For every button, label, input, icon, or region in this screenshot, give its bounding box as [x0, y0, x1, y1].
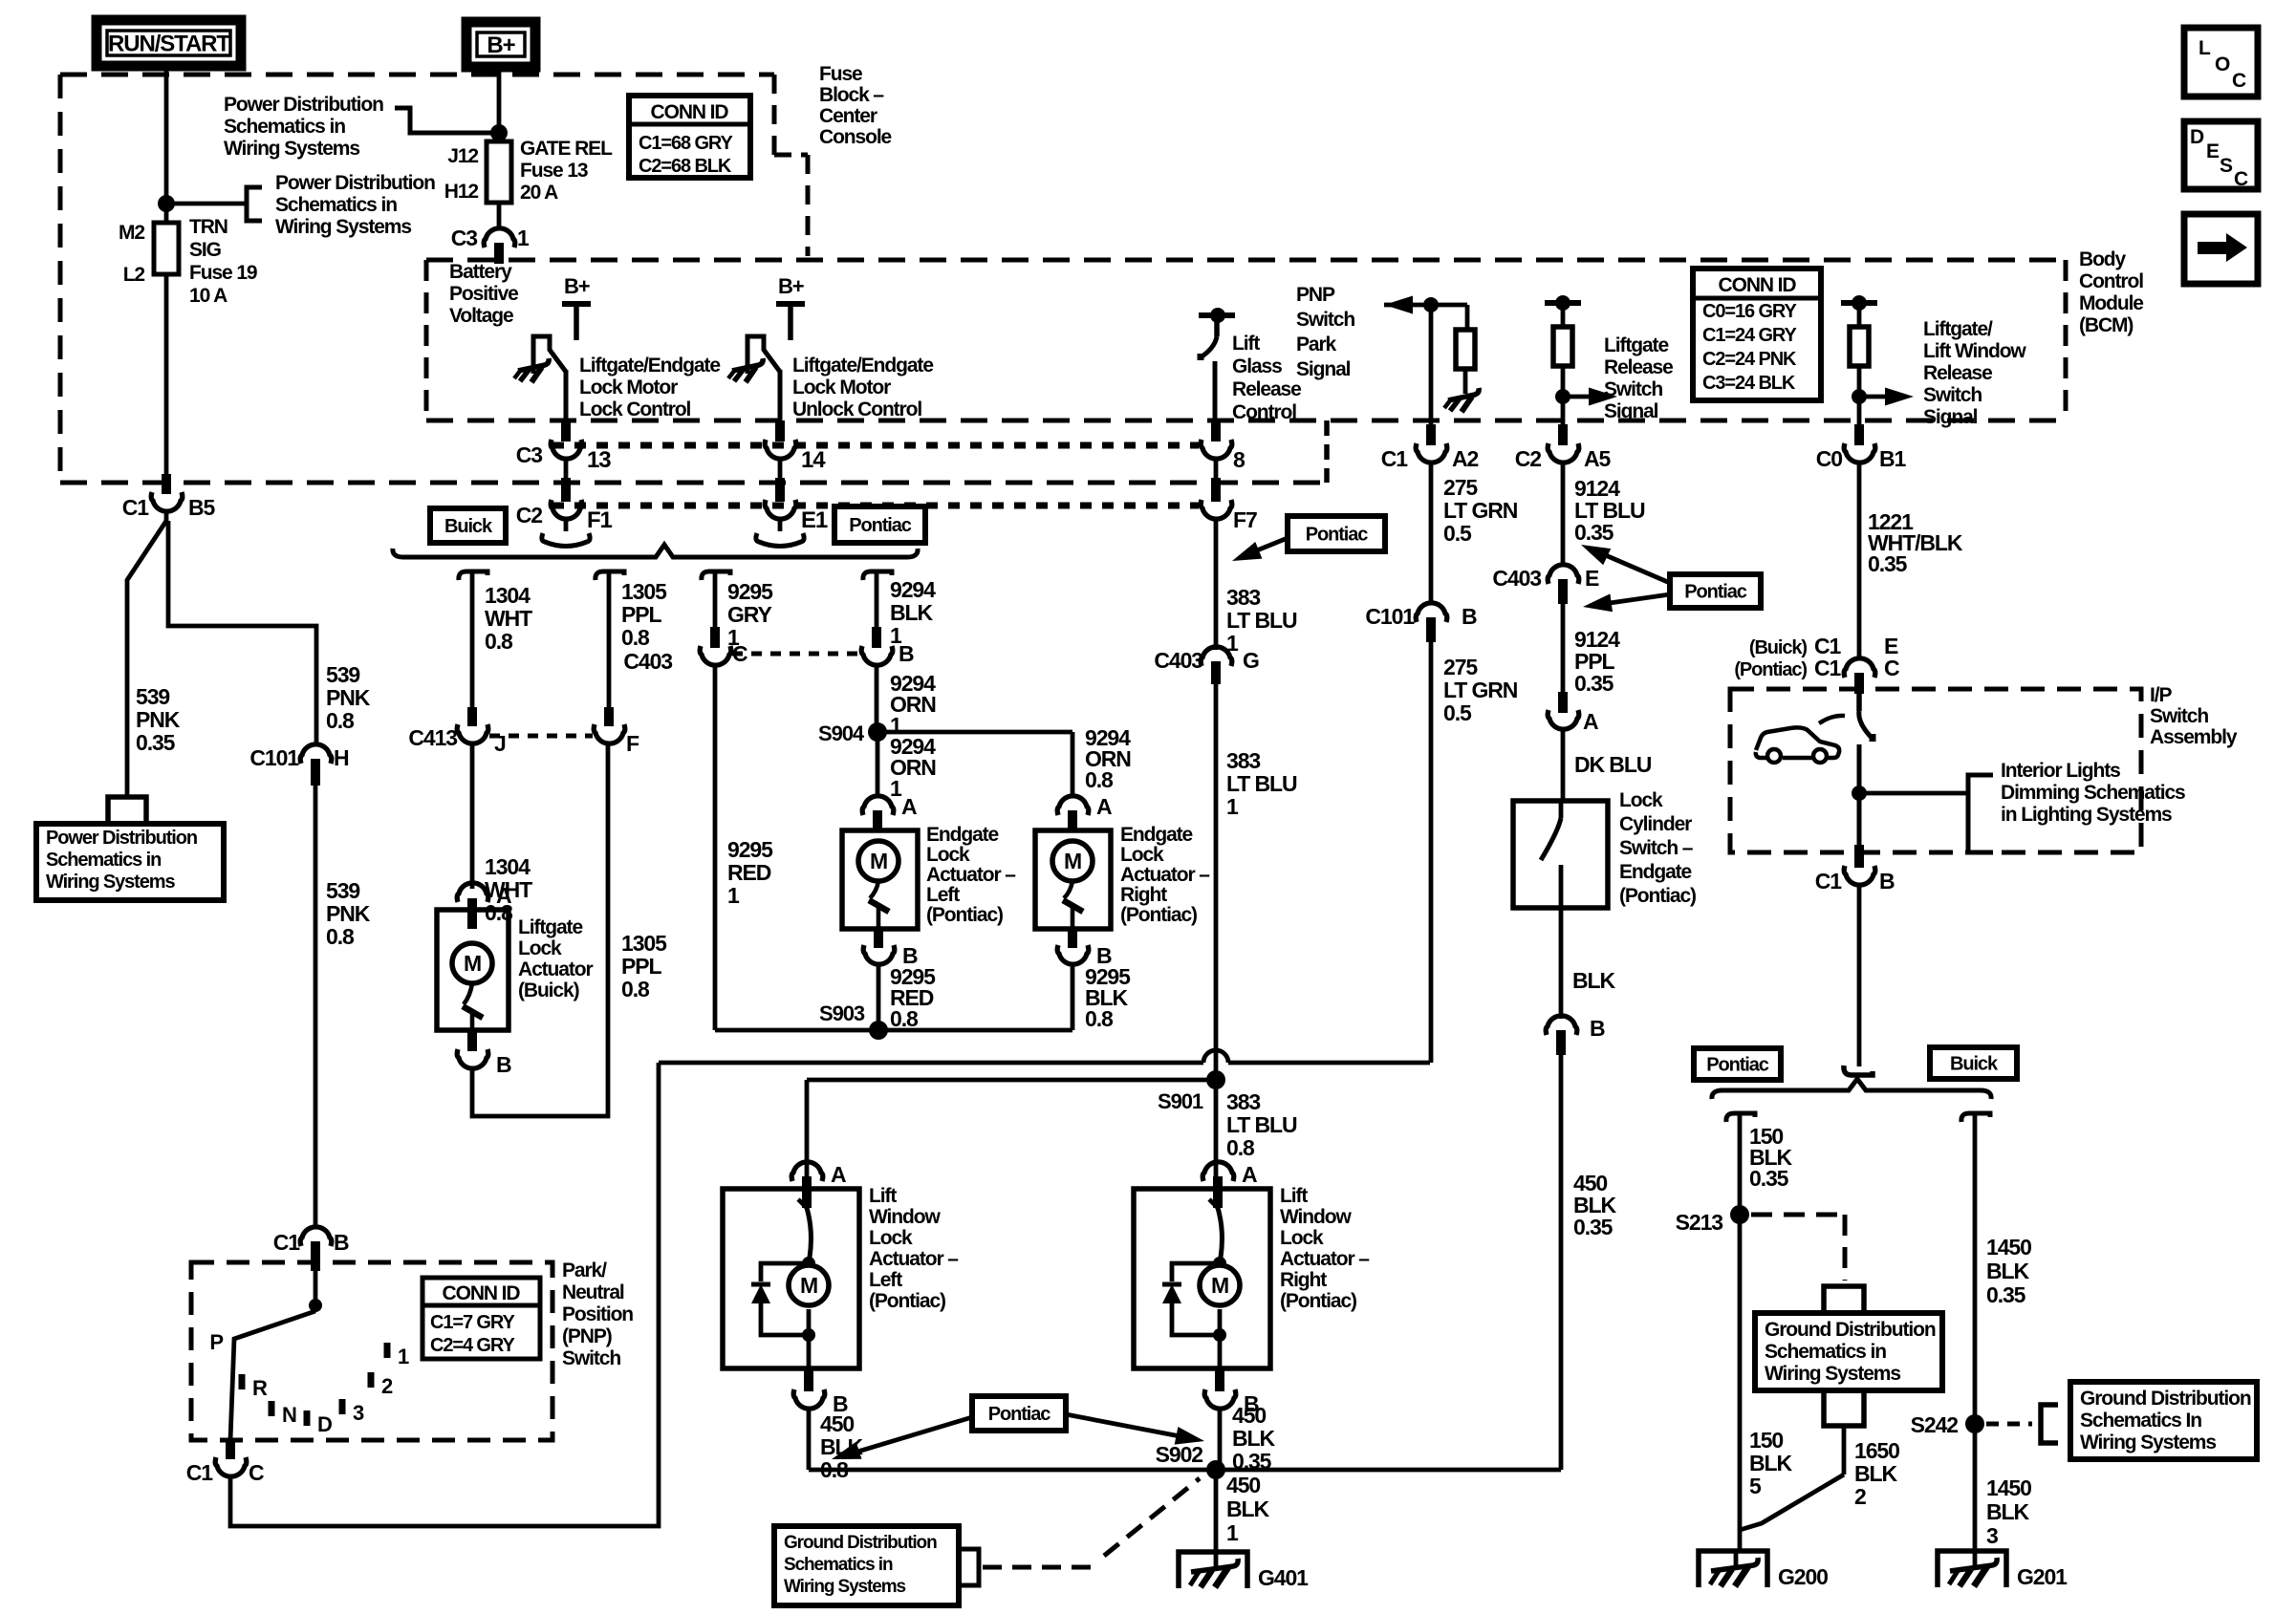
svg-text:Pontiac: Pontiac	[1684, 582, 1747, 603]
svg-text:0.35: 0.35	[1574, 520, 1614, 545]
svg-text:C0=16 GRY: C0=16 GRY	[1702, 301, 1798, 322]
svg-text:P: P	[209, 1330, 223, 1354]
CONN ID box (fuse block)	[629, 96, 750, 178]
svg-text:B: B	[1879, 869, 1895, 894]
fuse block pins C3-14 / C2-E1	[775, 420, 785, 441]
wire fuse to C3 1	[497, 203, 502, 229]
svg-text:BLK: BLK	[1226, 1497, 1269, 1521]
svg-text:Endgate: Endgate	[1619, 861, 1692, 883]
svg-text:Lift Window: Lift Window	[1923, 340, 2026, 362]
svg-text:BLK: BLK	[1854, 1461, 1897, 1486]
svg-text:Pontiac: Pontiac	[1306, 525, 1369, 546]
svg-text:(BCM): (BCM)	[2079, 314, 2133, 336]
svg-text:M: M	[1211, 1273, 1228, 1298]
svg-text:LT BLU: LT BLU	[1226, 1112, 1297, 1137]
svg-text:PNK: PNK	[326, 901, 371, 926]
lock cylinder switch box	[1513, 801, 1608, 908]
svg-text:Lock: Lock	[1619, 789, 1663, 811]
svg-text:(Pontiac): (Pontiac)	[1120, 904, 1197, 926]
svg-text:Liftgate/: Liftgate/	[1923, 318, 1993, 340]
svg-text:C1: C1	[1381, 446, 1409, 471]
wire 539 PNK 0.8 to PNP switch	[314, 784, 318, 1228]
svg-text:Interior Lights: Interior Lights	[2001, 760, 2120, 782]
svg-text:B: B	[334, 1230, 349, 1255]
svg-text:383: 383	[1226, 585, 1260, 610]
svg-text:WHT: WHT	[485, 606, 532, 631]
svg-text:BLK: BLK	[1572, 968, 1615, 993]
Pontiac harness box label	[834, 506, 925, 543]
svg-text:3: 3	[353, 1401, 364, 1425]
svg-text:Release: Release	[1923, 362, 1992, 384]
svg-text:B+: B+	[564, 274, 590, 298]
svg-text:Lock: Lock	[926, 844, 970, 866]
svg-text:539: 539	[326, 662, 359, 687]
svg-text:0.8: 0.8	[326, 708, 355, 733]
svg-text:Release: Release	[1232, 378, 1301, 400]
svg-text:C101: C101	[1365, 604, 1415, 629]
svg-text:1: 1	[517, 226, 530, 250]
svg-text:0.35: 0.35	[1749, 1166, 1789, 1191]
svg-text:Signal: Signal	[1604, 400, 1658, 422]
svg-text:S242: S242	[1911, 1412, 1959, 1437]
svg-text:C: C	[2234, 168, 2248, 190]
svg-text:DK BLU: DK BLU	[1574, 752, 1652, 777]
connector B left endgate actuator	[874, 929, 883, 948]
connector A right endgate actuator	[1057, 796, 1089, 815]
svg-text:Control: Control	[2079, 270, 2143, 292]
svg-text:10 A: 10 A	[189, 285, 227, 307]
connector C403 B	[872, 627, 881, 648]
svg-text:0.35: 0.35	[1573, 1215, 1614, 1239]
svg-text:C2: C2	[1515, 446, 1542, 471]
svg-text:Wiring Systems: Wiring Systems	[784, 1577, 906, 1597]
connector C1 B below I/P switch	[1854, 845, 1864, 868]
svg-text:C1: C1	[186, 1460, 214, 1485]
wire 275 LT GRN from C1 A2	[1426, 424, 1436, 445]
svg-text:9295: 9295	[727, 579, 773, 604]
svg-text:Schematics in: Schematics in	[1765, 1341, 1886, 1363]
svg-text:A: A	[1096, 794, 1112, 819]
svg-text:Dimming Schematics: Dimming Schematics	[2001, 782, 2185, 804]
svg-text:Block –: Block –	[819, 84, 884, 106]
svg-text:C1=24 GRY: C1=24 GRY	[1702, 325, 1798, 346]
svg-text:Lift: Lift	[1232, 333, 1260, 355]
arrow reference box	[2184, 214, 2258, 284]
interior dashed box left edge	[424, 260, 429, 420]
fuse block - center console dashed outline	[60, 73, 774, 77]
svg-text:Body: Body	[2079, 248, 2127, 270]
svg-text:Schematics In: Schematics In	[2080, 1410, 2201, 1432]
svg-text:C403: C403	[623, 649, 672, 674]
fuse block pins C3-13 / C2-F1	[561, 420, 571, 441]
svg-text:Switch: Switch	[1604, 378, 1662, 400]
svg-text:Wiring Systems: Wiring Systems	[46, 872, 175, 893]
Buick box (ground split)	[1930, 1047, 2017, 1079]
svg-text:450: 450	[1232, 1403, 1266, 1428]
svg-text:M: M	[800, 1273, 817, 1298]
svg-text:0.8: 0.8	[621, 625, 650, 650]
svg-text:Signal: Signal	[1296, 358, 1351, 380]
svg-text:E: E	[2206, 140, 2220, 162]
svg-text:H12: H12	[444, 181, 479, 203]
svg-text:C2=24 PNK: C2=24 PNK	[1702, 349, 1797, 370]
svg-text:5: 5	[1749, 1474, 1762, 1498]
connector row C2 dotted line	[552, 503, 1199, 509]
connector B below Buick actuator	[467, 1030, 477, 1051]
svg-text:Fuse 13: Fuse 13	[520, 160, 588, 182]
Buick harness box label	[430, 508, 506, 543]
LOC reference box	[2184, 28, 2258, 97]
svg-text:Console: Console	[819, 126, 892, 148]
svg-text:BLK: BLK	[1986, 1499, 2029, 1524]
PNP return line with wire hop	[659, 1050, 1430, 1063]
CONN ID box (PNP)	[422, 1278, 540, 1359]
wire 383 LT BLU 0.8 S901 to right actuator	[1214, 1080, 1219, 1179]
C403 dotted link	[732, 652, 858, 657]
svg-text:0.8: 0.8	[1085, 767, 1114, 792]
svg-text:GRY: GRY	[727, 602, 771, 627]
svg-text:RED: RED	[727, 860, 771, 885]
ground G201	[1938, 1551, 2006, 1587]
ground distribution box (center-right)	[1755, 1313, 1942, 1390]
DESC reference box	[2184, 121, 2258, 189]
svg-text:Buick: Buick	[1950, 1054, 1999, 1075]
endgate lock actuator left box	[842, 830, 918, 929]
svg-text:B1: B1	[1879, 446, 1907, 471]
svg-text:Module: Module	[2079, 292, 2143, 314]
svg-text:S903: S903	[819, 1001, 865, 1025]
svg-text:Wiring Systems: Wiring Systems	[224, 138, 359, 160]
svg-text:Liftgate/Endgate: Liftgate/Endgate	[579, 355, 720, 377]
junction S903	[869, 1021, 888, 1040]
svg-text:PNP: PNP	[1296, 284, 1335, 306]
svg-text:S213: S213	[1676, 1210, 1723, 1235]
svg-text:0.35: 0.35	[1868, 551, 1908, 576]
svg-text:C: C	[1884, 656, 1899, 680]
svg-text:N: N	[282, 1403, 296, 1427]
svg-text:Lock: Lock	[869, 1227, 913, 1249]
PNP switch dashed box	[191, 1262, 552, 1440]
svg-text:1305: 1305	[621, 579, 667, 604]
power distribution bracket (lower-left)	[247, 187, 262, 221]
fuse block C1 connector step bracket	[1324, 420, 1330, 483]
wire 150 BLK 0.35 (Pontiac)	[1726, 1113, 1755, 1122]
svg-text:C101: C101	[249, 745, 299, 770]
svg-text:1: 1	[727, 883, 740, 908]
svg-text:B: B	[496, 1052, 511, 1077]
svg-text:C3=24 BLK: C3=24 BLK	[1702, 373, 1796, 394]
svg-text:PNK: PNK	[136, 707, 181, 732]
wire 9294 ORN 0.8 to right endgate actuator	[1071, 732, 1075, 797]
I/P switch blade	[1856, 692, 1862, 711]
harness brace	[393, 545, 918, 557]
svg-text:S901: S901	[1158, 1089, 1203, 1113]
svg-text:CONN ID: CONN ID	[651, 101, 729, 123]
connector C413 F	[604, 707, 614, 726]
svg-text:(Pontiac): (Pontiac)	[1619, 885, 1696, 907]
svg-text:C1: C1	[273, 1230, 301, 1255]
Pontiac box with two arrows (bottom)	[972, 1396, 1066, 1431]
wire RUN/START ignition feed	[164, 66, 169, 223]
svg-text:C3: C3	[451, 226, 478, 250]
svg-text:Window: Window	[869, 1206, 941, 1228]
liftgate/lift window release switch signal resistor	[1841, 300, 1877, 306]
svg-text:Schematics in: Schematics in	[275, 194, 397, 216]
svg-text:G401: G401	[1258, 1565, 1309, 1590]
svg-text:0.8: 0.8	[890, 1006, 919, 1031]
svg-text:A: A	[496, 883, 511, 908]
power flag RUN/START	[97, 20, 241, 66]
wire fuse to C1 B5	[164, 274, 169, 479]
svg-text:20 A: 20 A	[520, 182, 558, 204]
connector C3 1 (fuse block output)	[484, 228, 515, 248]
svg-text:1: 1	[1226, 794, 1239, 819]
ground G401	[1179, 1552, 1247, 1588]
svg-text:B5: B5	[188, 495, 216, 520]
svg-text:Buick: Buick	[444, 516, 493, 537]
svg-text:O: O	[2215, 54, 2230, 75]
wire down to Pontiac/Buick brace	[1857, 884, 1862, 1066]
svg-text:Unlock Control: Unlock Control	[792, 398, 921, 420]
dashed leader S213 to ground distribution box	[1751, 1213, 1845, 1217]
connector A lift window actuator left	[791, 1162, 823, 1181]
svg-text:Actuator –: Actuator –	[869, 1248, 959, 1270]
leader S242 to ground distribution box	[1986, 1422, 2032, 1427]
svg-text:F1: F1	[587, 507, 613, 533]
svg-text:C: C	[2232, 70, 2246, 92]
svg-text:Window: Window	[1280, 1206, 1352, 1228]
wire 383 LT BLU to S901	[1214, 682, 1219, 1080]
connector B lift window actuator right	[1215, 1368, 1224, 1391]
connector C1 B at PNP switch	[300, 1227, 332, 1246]
svg-text:Battery: Battery	[449, 261, 512, 283]
svg-text:Park: Park	[1296, 334, 1337, 355]
junction S904	[868, 722, 887, 742]
svg-text:14: 14	[801, 447, 826, 473]
svg-text:TRN: TRN	[189, 216, 227, 238]
svg-text:B+: B+	[778, 274, 804, 298]
svg-text:Lift: Lift	[1280, 1185, 1308, 1207]
svg-text:Right: Right	[1280, 1269, 1327, 1291]
svg-text:Lift: Lift	[869, 1185, 897, 1207]
svg-text:BLK: BLK	[1986, 1259, 2029, 1283]
svg-text:Actuator: Actuator	[518, 958, 593, 980]
wire 150 BLK 5 to G200	[1738, 1215, 1743, 1551]
wire 1304 WHT 0.8 (Buick)	[459, 571, 487, 580]
fuse block connector-face bottom dashed line	[60, 481, 1327, 485]
svg-text:Actuator –: Actuator –	[1120, 864, 1210, 886]
svg-text:S: S	[2220, 155, 2233, 177]
svg-text:0.35: 0.35	[136, 730, 176, 755]
wire B+ feed	[497, 67, 502, 141]
svg-text:Wiring Systems: Wiring Systems	[2080, 1432, 2216, 1453]
power flag B+ (fuse block feed)	[466, 22, 535, 67]
wire to left endgate actuator A	[876, 732, 880, 797]
svg-text:Switch: Switch	[562, 1347, 620, 1369]
svg-text:0.35: 0.35	[1574, 671, 1614, 696]
S902 junction line	[809, 1468, 1561, 1473]
svg-text:0.8: 0.8	[1085, 1006, 1114, 1031]
bracket below ground distribution box	[1824, 1391, 1864, 1426]
svg-text:BLK: BLK	[1232, 1426, 1275, 1451]
connector C101 B	[1416, 603, 1447, 622]
svg-text:Right: Right	[1120, 884, 1167, 906]
svg-text:275: 275	[1443, 475, 1478, 500]
wire 450 BLK 1 to G401	[1214, 1470, 1219, 1552]
svg-text:Ground Distribution: Ground Distribution	[1765, 1319, 1936, 1341]
wire S901 to left actuator	[805, 1080, 810, 1179]
svg-text:C403: C403	[1492, 566, 1541, 591]
svg-text:Fuse 19: Fuse 19	[189, 262, 257, 284]
svg-text:Center: Center	[819, 105, 877, 127]
Pontiac box (ground split)	[1694, 1048, 1781, 1080]
car icon	[1756, 727, 1839, 758]
interior dashed box bottom edge	[426, 419, 2066, 423]
connector C1 B5	[151, 492, 183, 511]
PNP switch wire and wiper	[314, 1269, 318, 1305]
connector B lock cylinder	[1546, 1016, 1577, 1035]
svg-text:C2=4 GRY: C2=4 GRY	[430, 1335, 515, 1356]
svg-text:Endgate: Endgate	[1120, 824, 1193, 846]
svg-text:RUN/START: RUN/START	[108, 32, 230, 57]
svg-text:Release: Release	[1604, 356, 1673, 378]
dashed leader to S902	[983, 1565, 1097, 1570]
ground distribution box (bottom-center)	[774, 1526, 959, 1605]
svg-text:150: 150	[1749, 1428, 1783, 1453]
wire branch to power distribution (539 PNK 0.35)	[127, 521, 166, 796]
fuse M2/L2 TRN SIG Fuse 19 10A	[154, 223, 179, 274]
svg-text:BLK: BLK	[1749, 1451, 1792, 1475]
wire 9124 from C2 A5	[1558, 424, 1568, 445]
connector C403 E	[1548, 565, 1579, 584]
svg-text:Switch: Switch	[1296, 309, 1354, 331]
wire BLK below lock cylinder switch	[1559, 908, 1564, 1019]
S903 bottom link wire	[715, 1028, 1072, 1033]
svg-text:C1: C1	[122, 495, 150, 520]
svg-text:A2: A2	[1452, 446, 1479, 471]
endgate lock actuator right box	[1035, 830, 1111, 929]
svg-text:Liftgate/Endgate: Liftgate/Endgate	[792, 355, 933, 377]
svg-text:C1: C1	[1815, 869, 1843, 894]
svg-text:1304: 1304	[485, 583, 531, 608]
svg-text:PPL: PPL	[621, 602, 661, 627]
svg-text:1450: 1450	[1986, 1475, 2031, 1500]
svg-text:L: L	[2199, 37, 2211, 59]
junction S213	[1730, 1205, 1749, 1224]
svg-text:Signal: Signal	[1923, 406, 1978, 428]
lift window lock actuator right box	[1134, 1189, 1270, 1368]
svg-text:(Pontiac): (Pontiac)	[869, 1290, 945, 1312]
I/P switch assembly dashed box	[1730, 689, 2141, 852]
diode lift window actuator left	[761, 1263, 809, 1281]
interior lights dimming branch	[1852, 786, 1867, 801]
svg-text:Lock Motor: Lock Motor	[579, 377, 678, 398]
svg-text:Left: Left	[926, 884, 960, 906]
ground split brace	[1712, 1079, 1991, 1099]
svg-text:539: 539	[326, 878, 359, 903]
svg-text:0.8: 0.8	[326, 924, 355, 949]
svg-text:0.35: 0.35	[1986, 1282, 2026, 1307]
svg-text:I/P: I/P	[2150, 684, 2172, 706]
svg-text:C413: C413	[408, 725, 457, 750]
svg-text:CONN ID: CONN ID	[1719, 274, 1797, 296]
connector B lift window actuator left	[804, 1368, 813, 1391]
Pontiac box with arrow near F7	[1288, 516, 1385, 551]
connector C403 C	[710, 627, 720, 648]
wire 9294 BLK 1 (Pontiac)	[863, 571, 892, 580]
svg-text:Ground Distribution: Ground Distribution	[2080, 1388, 2251, 1410]
interior dashed box right edge	[2064, 260, 2069, 420]
S901 junction and link line	[807, 1078, 1216, 1083]
svg-text:C2=68 BLK: C2=68 BLK	[639, 156, 732, 177]
lift window lock actuator left box	[723, 1189, 859, 1368]
diode lift window actuator right	[1172, 1263, 1220, 1281]
svg-text:Assembly: Assembly	[2150, 726, 2238, 748]
svg-text:Fuse: Fuse	[819, 63, 862, 85]
svg-text:539: 539	[136, 684, 169, 709]
svg-text:Neutral: Neutral	[562, 1281, 624, 1303]
wire 1450 BLK 0.35 (Buick)	[1961, 1113, 1990, 1122]
svg-text:383: 383	[1226, 748, 1260, 773]
wire branch to C101 H (539 PNK 0.8)	[168, 521, 316, 743]
svg-text:M: M	[464, 951, 481, 976]
svg-text:Voltage: Voltage	[449, 305, 513, 327]
wire PNP return loop	[230, 1063, 659, 1526]
svg-text:C1=68 GRY: C1=68 GRY	[639, 133, 734, 154]
svg-text:J12: J12	[447, 145, 478, 167]
svg-text:Cylinder: Cylinder	[1619, 813, 1692, 835]
svg-text:450: 450	[820, 1411, 854, 1436]
ground distribution box (far right)	[2070, 1382, 2257, 1459]
svg-text:Schematics in: Schematics in	[784, 1555, 893, 1575]
wire 1305 PPL 0.8 (Buick)	[596, 571, 624, 580]
svg-text:B+: B+	[487, 32, 515, 58]
junction to power distribution reference	[158, 195, 175, 212]
svg-text:M2: M2	[119, 222, 144, 244]
svg-text:LT BLU: LT BLU	[1226, 608, 1297, 633]
svg-text:(Buick): (Buick)	[1749, 637, 1808, 658]
CONN ID box (BCM)	[1693, 269, 1821, 400]
svg-text:A: A	[1583, 709, 1598, 734]
fuse J12/H12 GATE REL Fuse 13 20A	[487, 141, 511, 203]
svg-text:S902: S902	[1156, 1442, 1203, 1467]
svg-text:1304: 1304	[485, 854, 531, 879]
svg-text:G201: G201	[2017, 1564, 2068, 1589]
svg-text:Lock Motor: Lock Motor	[792, 377, 891, 398]
svg-text:C1: C1	[1814, 656, 1842, 680]
svg-text:LT BLU: LT BLU	[1226, 771, 1297, 796]
svg-text:GATE REL: GATE REL	[520, 138, 613, 160]
junction S242	[1965, 1414, 1984, 1433]
wire 9295 GRY 1 (Pontiac)	[702, 571, 730, 580]
svg-text:2: 2	[1854, 1484, 1866, 1509]
svg-text:(Buick): (Buick)	[518, 980, 579, 1001]
svg-text:M: M	[870, 849, 887, 873]
svg-text:LT GRN: LT GRN	[1443, 498, 1518, 523]
svg-text:1: 1	[1226, 1520, 1239, 1545]
svg-text:F: F	[626, 731, 639, 756]
C413 connector dotted link	[489, 734, 593, 739]
svg-text:Actuator –: Actuator –	[1280, 1248, 1370, 1270]
svg-text:0.8: 0.8	[485, 629, 513, 654]
svg-text:Left: Left	[869, 1269, 902, 1291]
connector A lift window actuator right	[1202, 1162, 1234, 1181]
svg-text:Positive: Positive	[449, 283, 518, 305]
svg-text:S904: S904	[818, 721, 865, 745]
svg-text:E: E	[1585, 566, 1599, 591]
wire 1221 WHT/BLK from C0 B1	[1854, 424, 1864, 445]
svg-text:Lock: Lock	[518, 937, 562, 959]
